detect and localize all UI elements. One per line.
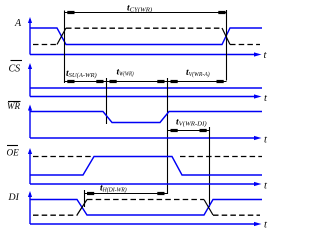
wire DI crossover diagonal 2: [204, 200, 213, 216]
wire A crossover diagonal 2: [222, 28, 230, 45]
wire A solid: [30, 28, 262, 45]
label WR overline: [8, 101, 21, 103]
dimension tH(DI-WR): [85, 193, 168, 195]
wire OE dashed right: [180, 156, 262, 158]
axis vertical OE: [29, 150, 31, 184]
wire DI dashed middle: [87, 199, 204, 201]
wire DI dashed right: [213, 214, 260, 216]
axis time CS: [30, 96, 257, 98]
svg-text:A: A: [14, 18, 22, 29]
axis time A: [30, 54, 257, 56]
node ref line x84: [84, 190, 86, 207]
axis vertical WR: [29, 107, 31, 139]
axis vertical CS: [29, 65, 31, 97]
node ref line x209: [209, 127, 211, 207]
label OE overline: [7, 145, 18, 147]
wire DI crossover diagonal 1: [77, 200, 87, 216]
node ref line x106: [106, 78, 108, 124]
axis time OE: [30, 183, 257, 185]
axis time WR: [30, 137, 257, 139]
label CS overline: [11, 60, 23, 62]
node ref line x64: [64, 11, 66, 84]
wire DI solid: [30, 200, 262, 216]
node ref line x226: [226, 10, 228, 81]
dimension tCY(WR): [65, 12, 227, 14]
axis vertical A: [29, 19, 31, 55]
wire A dashed right: [230, 44, 260, 46]
axis time DI: [30, 223, 257, 225]
svg-text:CS: CS: [9, 64, 21, 75]
wire CS low: [30, 87, 262, 89]
svg-text:DI: DI: [8, 192, 20, 203]
wire WR: [30, 112, 262, 123]
node ref line x167: [167, 78, 169, 194]
svg-text:OE: OE: [7, 148, 20, 158]
dimension line CS row: [65, 81, 227, 83]
wire A crossover diagonal 1: [57, 28, 66, 45]
axis vertical DI: [29, 193, 31, 224]
wire OE dashed left: [33, 156, 92, 158]
wire A dashed middle: [66, 27, 222, 29]
wire A dashed left: [33, 44, 58, 46]
dimension tV(WR-DI): [168, 130, 210, 132]
svg-text:WR: WR: [7, 101, 20, 111]
wire DI dashed left: [33, 214, 78, 216]
wire OE solid: [30, 157, 262, 176]
